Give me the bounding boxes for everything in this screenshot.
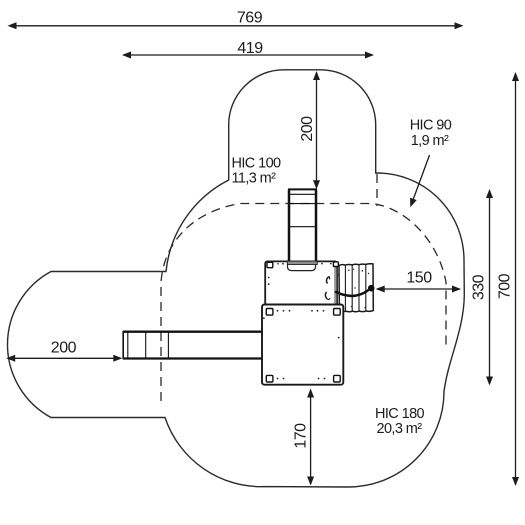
svg-text:200: 200 <box>299 116 316 142</box>
svg-text:11,3 m²: 11,3 m² <box>232 171 277 187</box>
svg-text:700: 700 <box>497 273 514 299</box>
svg-text:419: 419 <box>237 40 263 57</box>
svg-text:769: 769 <box>237 9 263 26</box>
svg-text:HIC 100: HIC 100 <box>232 156 282 172</box>
svg-text:170: 170 <box>292 423 309 449</box>
svg-text:1,9 m²: 1,9 m² <box>411 133 449 149</box>
svg-text:150: 150 <box>406 270 432 287</box>
svg-text:HIC 90: HIC 90 <box>410 118 452 134</box>
svg-text:200: 200 <box>51 340 77 357</box>
svg-text:20,3 m²: 20,3 m² <box>377 421 423 437</box>
svg-text:330: 330 <box>471 274 488 300</box>
svg-text:HIC 180: HIC 180 <box>375 406 425 422</box>
